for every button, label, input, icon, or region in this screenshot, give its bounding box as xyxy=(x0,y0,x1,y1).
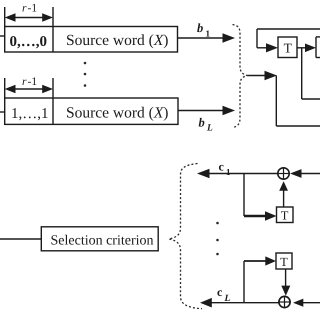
svg-text:c: c xyxy=(219,160,225,174)
svg-text:1,…,1: 1,…,1 xyxy=(11,106,49,122)
svg-text:T: T xyxy=(280,255,288,269)
svg-text:Source word (X): Source word (X) xyxy=(66,32,168,49)
svg-text:b: b xyxy=(199,116,205,130)
svg-text:0,…,0: 0,…,0 xyxy=(10,34,48,50)
svg-text:Source word (X): Source word (X) xyxy=(66,104,168,121)
svg-text:-1: -1 xyxy=(28,3,38,15)
svg-text:1: 1 xyxy=(206,29,211,39)
svg-text:L: L xyxy=(224,294,231,304)
svg-text:-1: -1 xyxy=(28,76,38,88)
svg-text:c: c xyxy=(217,285,223,299)
svg-text:r: r xyxy=(22,76,27,88)
svg-text:b: b xyxy=(197,21,203,35)
svg-text:Selection criterion: Selection criterion xyxy=(51,233,154,248)
svg-text:L: L xyxy=(206,124,213,134)
svg-text:T: T xyxy=(284,41,293,56)
svg-text:r: r xyxy=(22,3,27,15)
svg-text:T: T xyxy=(281,209,289,223)
svg-text:1: 1 xyxy=(226,167,231,177)
